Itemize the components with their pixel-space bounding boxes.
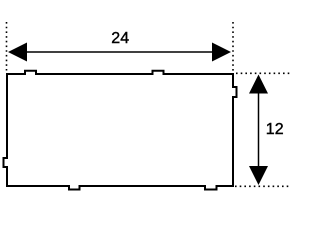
svg-text:24: 24 <box>111 30 129 47</box>
svg-text:12: 12 <box>266 121 284 138</box>
